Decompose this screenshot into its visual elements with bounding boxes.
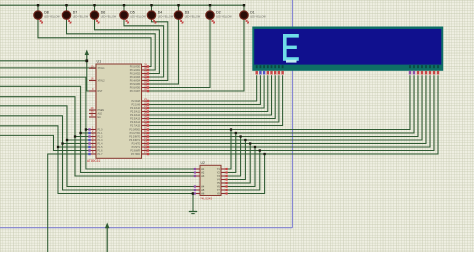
wire: anode stub D7 xyxy=(66,5,68,11)
LCD pin mark xyxy=(256,71,258,75)
LED D2 xyxy=(206,11,214,19)
wire P3.3 to LCD D3 xyxy=(142,75,423,140)
wire power junction down to RST xyxy=(87,61,96,91)
wire power feed from left xyxy=(0,60,87,62)
wire P0.4 to LED D4 xyxy=(142,19,168,80)
LCD pin mark xyxy=(259,71,261,75)
sheet border horizontal xyxy=(0,227,292,229)
pin Y3 U2 right xyxy=(221,175,228,177)
pin P2.4/A12 (25) U1 right xyxy=(142,114,149,116)
LCD display LM044L xyxy=(252,27,443,71)
wire P0.1 to LED D7 xyxy=(67,19,156,70)
wire feed to P1.6 xyxy=(0,135,96,150)
pin P1.0 (1) U1 left xyxy=(89,129,96,131)
pin PSEN (29) U1 left xyxy=(89,109,96,111)
wire P1.4 down to U2 xyxy=(63,144,195,191)
pin ALE (30) U1 left xyxy=(89,113,96,115)
pin P3.3/INT1 (13) U1 right xyxy=(142,139,149,141)
LCD pin mark xyxy=(429,71,431,75)
pin P1.4 (5) U1 left xyxy=(89,143,96,145)
pin P0.6/AD6 (33) U1 right xyxy=(142,87,149,89)
pin P2.1/A9 (22) U1 right xyxy=(142,104,149,106)
wire P0.3 to LED D5 xyxy=(124,19,164,77)
pin A2 (3) U2 left xyxy=(195,172,201,174)
pin Y4 U2 right xyxy=(221,179,228,181)
wire P2.0 to LCD pin 1 xyxy=(142,75,257,101)
pin P3.6/WR (16) U1 right xyxy=(142,150,149,152)
LCD pin mark xyxy=(421,71,423,75)
state square P1.3 xyxy=(88,139,90,141)
LCD pin mark xyxy=(278,71,280,75)
wire riser to U2 pin 0 xyxy=(228,130,232,170)
LCD pin mark xyxy=(425,71,427,75)
sheet border vertical xyxy=(291,0,293,228)
junction D1 rail xyxy=(243,4,245,6)
wire riser to U2 pin 3 xyxy=(228,140,246,180)
wire: anode stub D8 xyxy=(37,5,39,11)
LED D8 xyxy=(34,11,42,19)
wire P3.7 to LCD D7 xyxy=(142,75,439,154)
wire riser to U2 pin 2 xyxy=(228,137,241,177)
junction D7 rail xyxy=(65,4,67,6)
pin P3.0/RXD (10) U1 right xyxy=(142,129,149,131)
wire: anode stub D3 xyxy=(178,5,180,11)
pin A6 (7) U2 left xyxy=(195,193,201,195)
state square P1.1 xyxy=(88,132,90,134)
wire XTAL1 feed xyxy=(0,67,96,69)
pin P3.4/T0 (14) U1 right xyxy=(142,143,149,145)
junction D8 rail xyxy=(37,4,39,6)
pin P3.1/TXD (11) U1 right xyxy=(142,132,149,134)
pin P0.1/AD1 (38) U1 right xyxy=(142,69,149,71)
state square P1.4 xyxy=(88,142,90,144)
LED D1 xyxy=(240,11,248,19)
wire riser to U2 pin 6 xyxy=(228,151,260,191)
wire: anode stub D5 xyxy=(123,5,125,11)
wire P1.7 to bottom left xyxy=(48,154,96,252)
pin Y1 U2 right xyxy=(221,168,228,170)
pin Y5 U2 right xyxy=(221,182,228,184)
wire feed to P1.4 xyxy=(0,116,96,144)
wire P2.5 to LCD pin 6 xyxy=(142,75,276,118)
wire: anode stub D1 xyxy=(243,5,245,11)
state square P1.2 xyxy=(88,135,90,137)
wire feed to P1.0 xyxy=(0,77,96,129)
wire P1.0 down to U2 xyxy=(86,130,195,170)
wire P3.1 to LCD D1 xyxy=(142,75,415,133)
pin P0.7/AD7 (32) U1 right xyxy=(142,90,149,92)
wire P3.2 to LCD D2 xyxy=(142,75,419,136)
junction D4 rail xyxy=(150,4,152,6)
wire: anode stub D2 xyxy=(209,5,211,11)
LCD pin labels right xyxy=(409,65,411,68)
LCD char E xyxy=(283,34,299,61)
wire P0.6 to LED D2 xyxy=(142,19,211,87)
LCD pin mark xyxy=(263,71,265,75)
pin P0.5/AD5 (34) U1 right xyxy=(142,83,149,85)
IC U2 74LS245 body xyxy=(200,165,221,195)
pin P3.2/INT0 (12) U1 right xyxy=(142,136,149,138)
pin P2.3/A11 (24) U1 right xyxy=(142,111,149,113)
LCD pin labels left xyxy=(256,65,258,68)
pin P1.2 (3) U1 left xyxy=(89,136,96,138)
wire feed to P1.2 xyxy=(0,97,96,137)
wire P2.1 to LCD pin 2 xyxy=(142,75,261,104)
state square P1.7 xyxy=(88,153,90,155)
junction D3 rail xyxy=(177,4,179,6)
wire: top power rail xyxy=(0,4,244,6)
wire P2.3 to LCD pin 4 xyxy=(142,75,268,111)
pin P0.2/AD2 (37) U1 right xyxy=(142,73,149,75)
wire P3.6 to LCD D6 xyxy=(142,75,435,150)
pin P1.3 (4) U1 left xyxy=(89,139,96,141)
LED D7 xyxy=(62,11,70,19)
wire P2.2 to LCD pin 3 xyxy=(142,75,265,108)
pin P2.0/A8 (21) U1 right xyxy=(142,100,149,102)
wire riser to U2 pin 7 xyxy=(228,154,265,194)
pin XTAL1 (19) U1 left xyxy=(89,67,96,69)
wire feed to P1.3 xyxy=(0,106,96,140)
pin Y7 U2 right xyxy=(221,189,228,191)
LED D3 xyxy=(174,11,182,19)
wire P1.5 down to U2 xyxy=(58,147,195,194)
wire P0.0 to LED D8 xyxy=(38,19,151,66)
wire: anode stub D6 xyxy=(94,5,96,11)
pin P2.2/A10 (23) U1 right xyxy=(142,107,149,109)
pin P2.6/A14 (27) U1 right xyxy=(142,121,149,123)
pin A1 (2) U2 left xyxy=(195,168,201,170)
IC U1 AT89C51 body xyxy=(96,64,142,158)
wire P2.4 to LCD pin 5 xyxy=(142,75,272,115)
junction D5 rail xyxy=(123,4,125,6)
pin P0.3/AD3 (36) U1 right xyxy=(142,76,149,78)
pin P0.0/AD0 (39) U1 right xyxy=(142,66,149,68)
wire riser to U2 pin 4 xyxy=(228,144,251,184)
pin Y2 U2 right xyxy=(221,172,228,174)
wire P0.2 to LED D6 xyxy=(95,19,160,73)
pin P0.4/AD4 (35) U1 right xyxy=(142,80,149,82)
junction D2 rail xyxy=(209,4,211,6)
LCD pin mark xyxy=(437,71,439,75)
wire P2.7 to LCD pin 8 xyxy=(142,75,283,125)
state square P1.6 xyxy=(88,149,90,151)
pin P2.7/A15 (28) U1 right xyxy=(142,125,149,127)
pin P1.6 (7) U1 left xyxy=(89,150,96,152)
pin RST (9) U1 left xyxy=(89,90,96,92)
pin P1.1 (2) U1 left xyxy=(89,132,96,134)
LED D5 xyxy=(120,11,128,19)
pin A3 (4) U2 left xyxy=(195,175,201,177)
LED D4 xyxy=(147,11,155,19)
wire P2.6 to LCD pin 7 xyxy=(142,75,279,122)
wire feed to P1.1 xyxy=(0,86,96,133)
wire P0.5 to LED D3 xyxy=(142,19,179,84)
power arrow VCC xyxy=(86,54,88,61)
pin A5 (6) U2 left xyxy=(195,189,201,191)
power arrow VCC bottom xyxy=(106,228,108,253)
LCD pin mark xyxy=(281,71,283,75)
wire feed to P1.5 xyxy=(0,126,96,147)
wire riser to U2 pin 1 xyxy=(228,133,236,173)
wire P1.2 down to U2 xyxy=(75,137,195,177)
pin P3.7/RD (17) U1 right xyxy=(142,153,149,155)
wire P3.5 to LCD D5 xyxy=(142,75,431,147)
pin Y8 U2 right xyxy=(221,193,228,195)
LED D6 xyxy=(90,11,98,19)
junction D6 rail xyxy=(93,4,95,6)
ground symbol xyxy=(193,194,195,212)
LCD pin mark xyxy=(433,71,435,75)
LCD pin mark xyxy=(270,71,272,75)
wire P3.0 to LCD D0 xyxy=(142,75,411,129)
LCD pin mark xyxy=(413,71,415,75)
pin XTAL2 (18) U1 left xyxy=(89,80,96,82)
pin P1.7 (8) U1 left xyxy=(89,153,96,155)
LCD pin mark xyxy=(417,71,419,75)
pin P3.5/T1 (15) U1 right xyxy=(142,146,149,148)
pin P2.5/A13 (26) U1 right xyxy=(142,118,149,120)
pin P1.5 (6) U1 left xyxy=(89,146,96,148)
pin Y6 U2 right xyxy=(221,186,228,188)
state square P1.5 xyxy=(88,146,90,148)
wire P1.3 down to U2 xyxy=(67,140,195,187)
LCD pin mark xyxy=(274,71,276,75)
LCD pin mark xyxy=(267,71,269,75)
pin A4 (5) U2 left xyxy=(195,186,201,188)
wire P1.1 down to U2 xyxy=(81,133,195,173)
LCD pin mark xyxy=(409,71,411,75)
wire P3.4 to LCD D4 xyxy=(142,75,427,143)
pin EA (31) U1 left xyxy=(89,116,96,118)
wire P0.7 to LED D1 xyxy=(142,19,245,91)
wire: anode stub D4 xyxy=(151,5,153,11)
wire riser to U2 pin 5 xyxy=(228,147,256,187)
LCD cursor xyxy=(286,60,297,63)
state square P1.0 xyxy=(88,128,90,130)
